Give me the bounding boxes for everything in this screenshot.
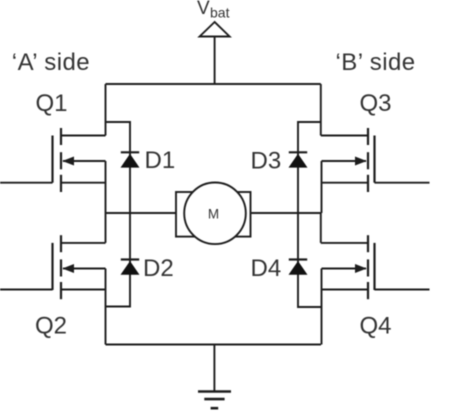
svg-text:Q1: Q1 bbox=[36, 90, 68, 117]
svg-text:M: M bbox=[208, 207, 219, 222]
svg-text:D1: D1 bbox=[145, 147, 176, 174]
svg-text:D2: D2 bbox=[143, 255, 174, 282]
svg-text:‘A’ side: ‘A’ side bbox=[12, 49, 90, 76]
svg-text:Q3: Q3 bbox=[360, 90, 392, 117]
svg-text:Q2: Q2 bbox=[35, 313, 67, 340]
svg-text:Q4: Q4 bbox=[360, 313, 392, 340]
svg-text:bat: bat bbox=[210, 5, 230, 21]
svg-text:D4: D4 bbox=[251, 255, 282, 282]
svg-text:D3: D3 bbox=[251, 148, 282, 175]
svg-text:V: V bbox=[197, 0, 210, 19]
svg-text:‘B’ side: ‘B’ side bbox=[336, 49, 416, 76]
